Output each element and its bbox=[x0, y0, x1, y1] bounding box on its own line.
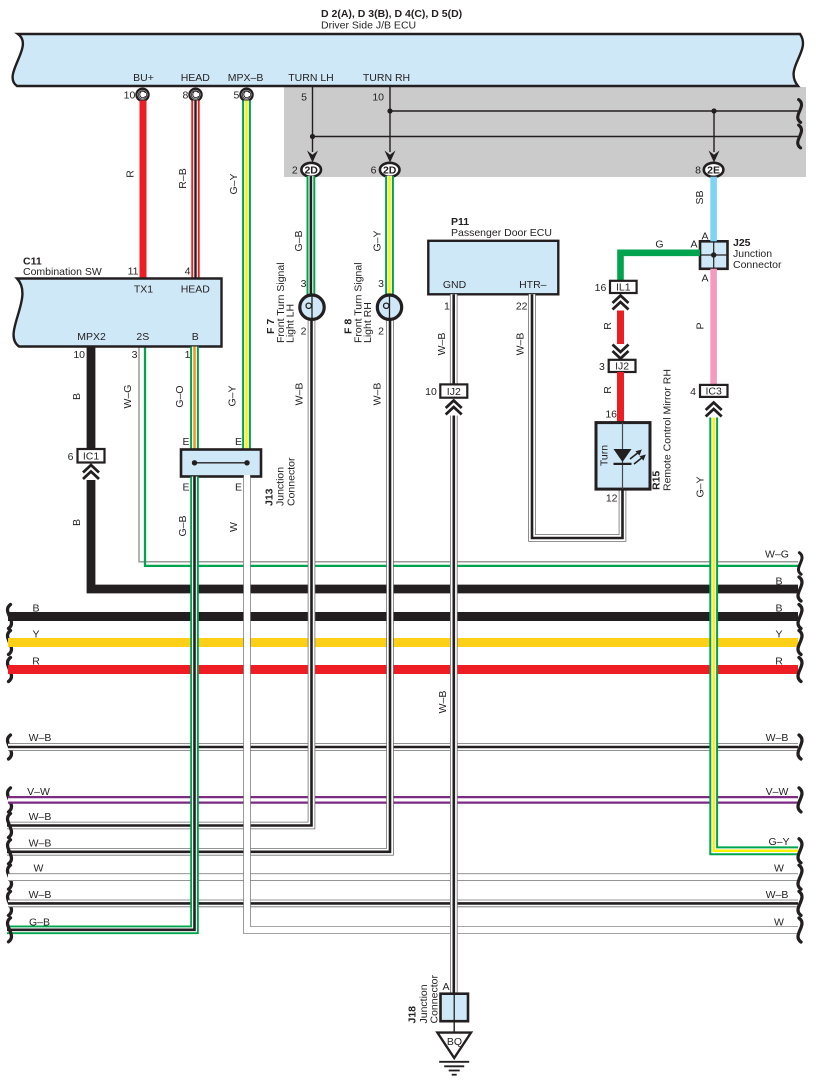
svg-text:J18: J18 bbox=[407, 1006, 419, 1024]
svg-text:G–B: G–B bbox=[177, 515, 189, 536]
svg-text:R: R bbox=[125, 170, 137, 178]
svg-text:B: B bbox=[192, 331, 199, 343]
svg-text:B: B bbox=[775, 603, 782, 615]
svg-text:BU+: BU+ bbox=[133, 72, 154, 84]
svg-text:W–B: W–B bbox=[372, 383, 384, 406]
svg-text:W–B: W–B bbox=[515, 333, 527, 356]
connector IC3 pin 4 bbox=[690, 385, 727, 417]
wire SB from 2E to J25 bbox=[694, 177, 714, 242]
svg-text:R: R bbox=[32, 656, 40, 668]
svg-text:2D: 2D bbox=[383, 164, 397, 176]
bus row B full width bbox=[8, 603, 802, 629]
wire R from IJ2 to R15 pin 16 bbox=[602, 372, 621, 423]
bus row R full width bbox=[8, 656, 802, 682]
connector circle C pin 10 bbox=[124, 89, 149, 102]
svg-text:W: W bbox=[34, 863, 44, 875]
svg-text:Combination SW: Combination SW bbox=[23, 266, 102, 278]
svg-text:TURN LH: TURN LH bbox=[288, 72, 334, 84]
svg-text:6: 6 bbox=[68, 451, 74, 463]
svg-text:2: 2 bbox=[378, 326, 384, 338]
svg-text:IC1: IC1 bbox=[83, 451, 100, 463]
connector circle C pin 8 bbox=[182, 89, 201, 102]
svg-text:G–O: G–O bbox=[174, 385, 186, 407]
wire B from IC1 to bus row bbox=[71, 480, 802, 601]
junction connector J25 bbox=[700, 231, 782, 285]
connector circle C pin 5 bbox=[233, 89, 252, 102]
svg-text:W–B: W–B bbox=[29, 837, 52, 849]
svg-text:E: E bbox=[182, 436, 189, 448]
svg-text:6: 6 bbox=[371, 165, 377, 177]
svg-text:W–B: W–B bbox=[294, 383, 306, 406]
wire B from C11 MPX2 to IC1 bbox=[71, 347, 91, 450]
svg-text:10: 10 bbox=[124, 90, 136, 102]
svg-text:2: 2 bbox=[301, 326, 307, 338]
bus row Y full width bbox=[8, 629, 802, 655]
svg-text:12: 12 bbox=[606, 493, 618, 505]
connector IL1 pin 16 bbox=[595, 281, 637, 310]
svg-text:1: 1 bbox=[444, 301, 450, 313]
svg-text:2E: 2E bbox=[707, 164, 720, 176]
svg-text:B: B bbox=[32, 603, 39, 615]
wire P from J25 to IC3 bbox=[695, 269, 714, 385]
gray trunk region bbox=[284, 87, 806, 177]
wire G-B from J13 down and left to edge bbox=[7, 477, 195, 942]
wire G from J25 to IL1 bbox=[621, 239, 701, 281]
label R15 bbox=[651, 369, 674, 491]
bus row W full width bbox=[8, 863, 802, 890]
title Driver Side J/B ECU bbox=[321, 8, 462, 32]
svg-text:10: 10 bbox=[425, 386, 437, 398]
svg-text:R: R bbox=[602, 386, 614, 394]
wire W-B from IJ2 to J18 bbox=[437, 416, 454, 994]
bus row W-B full width bbox=[8, 732, 802, 759]
svg-text:HTR–: HTR– bbox=[519, 279, 547, 291]
svg-text:MPX–B: MPX–B bbox=[228, 72, 264, 84]
svg-text:16: 16 bbox=[605, 409, 617, 421]
connector oval 2D pin 2 bbox=[292, 163, 321, 177]
svg-text:B: B bbox=[71, 519, 83, 526]
connector oval 2D pin 6 bbox=[371, 163, 400, 177]
svg-text:W: W bbox=[774, 916, 784, 928]
svg-text:10: 10 bbox=[73, 349, 85, 361]
svg-text:E: E bbox=[235, 482, 242, 494]
svg-text:W–B: W–B bbox=[29, 889, 52, 901]
svg-text:4: 4 bbox=[690, 386, 696, 398]
svg-text:C: C bbox=[139, 89, 147, 101]
wire W from J13 down and right to edge bbox=[228, 475, 802, 942]
svg-text:G–Y: G–Y bbox=[372, 230, 384, 251]
svg-text:G: G bbox=[655, 239, 663, 251]
wire trunk line from TURN RH junction bbox=[387, 100, 801, 123]
svg-text:Light LH: Light LH bbox=[285, 304, 297, 343]
svg-text:Connector: Connector bbox=[286, 457, 298, 506]
wire W-G from C11 2S to bus row bbox=[122, 347, 802, 575]
arrow into 2D LH bbox=[307, 151, 318, 163]
svg-text:TURN RH: TURN RH bbox=[363, 72, 410, 84]
svg-text:8: 8 bbox=[695, 165, 701, 177]
svg-text:4: 4 bbox=[185, 266, 191, 278]
svg-text:3: 3 bbox=[132, 349, 138, 361]
wire G-Y from 2D to F8 bbox=[372, 176, 390, 295]
svg-text:G–Y: G–Y bbox=[768, 836, 789, 848]
svg-text:C: C bbox=[192, 89, 200, 101]
wire W-B from P11 HTR- to R15 pin 12 bbox=[515, 294, 623, 538]
svg-text:5: 5 bbox=[301, 92, 307, 104]
svg-text:Connector: Connector bbox=[733, 259, 782, 271]
svg-text:IC3: IC3 bbox=[706, 385, 723, 397]
svg-text:2D: 2D bbox=[304, 164, 318, 176]
bus D Driver Side J/B ECU band bbox=[13, 34, 803, 86]
svg-text:V–W: V–W bbox=[766, 786, 789, 798]
wire G-B from 2D to F7 bbox=[293, 176, 311, 295]
svg-text:HEAD: HEAD bbox=[181, 72, 211, 84]
svg-text:W–B: W–B bbox=[29, 732, 52, 744]
ECU C11 Combination SW bbox=[14, 256, 222, 362]
svg-text:11: 11 bbox=[128, 266, 139, 278]
svg-text:2S: 2S bbox=[136, 331, 149, 343]
label F8 bbox=[343, 262, 375, 343]
lamp F8 Front Turn Signal Light RH bbox=[377, 278, 401, 338]
wire TURN LH drop bbox=[301, 87, 312, 152]
svg-text:R: R bbox=[775, 656, 783, 668]
svg-text:W–B: W–B bbox=[766, 732, 789, 744]
svg-text:Remote Control Mirror RH: Remote Control Mirror RH bbox=[662, 369, 674, 491]
svg-text:C: C bbox=[243, 89, 251, 101]
svg-text:G–B: G–B bbox=[293, 230, 305, 251]
svg-text:A: A bbox=[701, 273, 708, 285]
wire R from BU+ to C11 TX1 bbox=[125, 101, 144, 278]
connector oval 2E pin 8 bbox=[695, 163, 723, 177]
svg-text:R–B: R–B bbox=[177, 168, 189, 188]
mirror unit R15 Remote Control Mirror RH bbox=[596, 423, 650, 505]
svg-text:MPX2: MPX2 bbox=[77, 331, 106, 343]
svg-text:W–B: W–B bbox=[29, 811, 52, 823]
svg-text:BQ: BQ bbox=[447, 1036, 462, 1048]
ECU P11 Passenger Door ECU bbox=[428, 216, 558, 294]
wire W-B from P11 GND to IJ2 bbox=[436, 294, 454, 384]
connector IJ2 pin 10 bbox=[425, 384, 467, 414]
svg-text:10: 10 bbox=[372, 92, 384, 104]
svg-text:3: 3 bbox=[378, 278, 384, 290]
svg-text:IJ2: IJ2 bbox=[615, 360, 629, 372]
connector IJ2 pin 3 bbox=[599, 360, 636, 373]
label F7 bbox=[265, 262, 297, 343]
wire TURN RH drop bbox=[372, 87, 390, 152]
wire G-Y from IC3 down and right to edge bbox=[695, 418, 802, 863]
arrow into 2D RH bbox=[385, 151, 396, 163]
svg-text:Light RH: Light RH bbox=[362, 302, 374, 343]
svg-text:TX1: TX1 bbox=[134, 284, 153, 296]
svg-text:A: A bbox=[442, 981, 449, 993]
svg-text:3: 3 bbox=[301, 278, 307, 290]
wire G-Y from MPX-B to J13 bbox=[227, 101, 247, 451]
svg-text:Y: Y bbox=[775, 629, 782, 641]
svg-text:P: P bbox=[695, 322, 707, 329]
svg-text:A: A bbox=[690, 239, 697, 251]
wire trunk line from TURN LH junction bbox=[310, 125, 802, 148]
ground BQ bbox=[437, 1021, 471, 1074]
svg-text:G–Y: G–Y bbox=[695, 476, 707, 497]
svg-text:E: E bbox=[182, 482, 189, 494]
svg-text:G–B: G–B bbox=[29, 916, 50, 928]
bus row W-B full width lower bbox=[8, 889, 802, 916]
wire drop to 2E bbox=[711, 108, 716, 152]
svg-text:W: W bbox=[774, 863, 784, 875]
svg-text:R: R bbox=[602, 322, 614, 330]
wire G-O from C11 B to J13 bbox=[174, 347, 195, 451]
svg-text:W: W bbox=[228, 522, 240, 532]
junction connector J13 bbox=[181, 436, 298, 506]
svg-text:Y: Y bbox=[32, 629, 39, 641]
svg-text:W–G: W–G bbox=[765, 549, 789, 561]
wire W-B from F8 down and left to edge bbox=[7, 318, 390, 864]
svg-text:5: 5 bbox=[233, 90, 239, 102]
bus row V-W full width bbox=[8, 786, 802, 812]
svg-text:SB: SB bbox=[694, 190, 706, 204]
wire R from IL1 to IJ2 bbox=[602, 311, 629, 359]
svg-text:W–B: W–B bbox=[436, 333, 448, 356]
svg-text:Passenger Door ECU: Passenger Door ECU bbox=[451, 227, 552, 239]
connector IC1 pin 6 bbox=[68, 449, 105, 479]
svg-text:D 2(A), D 3(B), D 4(C), D 5(D): D 2(A), D 3(B), D 4(C), D 5(D) bbox=[321, 8, 462, 20]
svg-text:Driver Side J/B ECU: Driver Side J/B ECU bbox=[321, 20, 416, 32]
svg-text:Connector: Connector bbox=[429, 975, 441, 1024]
svg-text:G–Y: G–Y bbox=[228, 173, 240, 194]
svg-text:16: 16 bbox=[595, 282, 607, 294]
svg-text:V–W: V–W bbox=[27, 786, 50, 798]
svg-text:8: 8 bbox=[182, 90, 188, 102]
svg-text:Turn: Turn bbox=[599, 445, 611, 466]
junction connector J18 bbox=[407, 975, 469, 1024]
wire W-B from F7 down and left to edge bbox=[7, 318, 312, 838]
svg-text:W–B: W–B bbox=[766, 889, 789, 901]
svg-text:1: 1 bbox=[185, 349, 191, 361]
svg-text:3: 3 bbox=[599, 361, 605, 373]
svg-text:G–Y: G–Y bbox=[227, 385, 239, 406]
arrow into 2E bbox=[709, 151, 720, 163]
svg-text:HEAD: HEAD bbox=[181, 284, 211, 296]
svg-text:W–B: W–B bbox=[437, 691, 449, 714]
LED turn indicator bbox=[614, 449, 632, 462]
svg-text:W–G: W–G bbox=[122, 385, 134, 409]
svg-text:B: B bbox=[71, 393, 83, 400]
wire R-B from HEAD to C11 HEAD bbox=[177, 101, 196, 278]
svg-text:IL1: IL1 bbox=[616, 282, 631, 294]
svg-text:2: 2 bbox=[292, 165, 298, 177]
svg-text:E: E bbox=[235, 436, 242, 448]
svg-text:IJ2: IJ2 bbox=[447, 386, 461, 398]
svg-text:22: 22 bbox=[516, 301, 528, 313]
svg-text:B: B bbox=[775, 576, 782, 588]
lamp F7 Front Turn Signal Light LH bbox=[300, 278, 324, 338]
svg-text:GND: GND bbox=[443, 279, 467, 291]
